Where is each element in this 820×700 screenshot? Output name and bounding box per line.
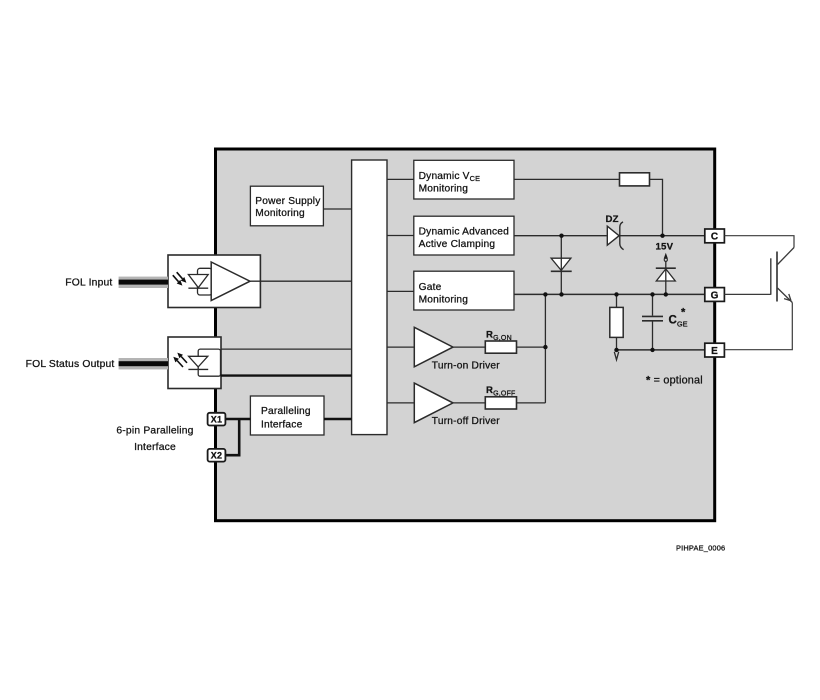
zener diode DZ [606,214,624,250]
wire FOL status lower to logic block [221,374,352,376]
wire paralleling interface to logic block [324,418,352,421]
block Dynamic Advanced Active Clamping [414,216,514,255]
wire C terminal to IGBT collector [724,236,794,248]
transistor Q1 IGBT [771,248,794,303]
svg-text:Power Supply: Power Supply [255,196,321,207]
label FOL Input [65,277,112,288]
svg-text:Active Clamping: Active Clamping [419,239,496,250]
wire clamping block to DZ [514,235,607,237]
svg-text:*: * [681,306,686,318]
block Dynamic VCE Monitoring [414,160,514,199]
pin X2 [208,449,226,462]
svg-text:FOL Status Output: FOL Status Output [26,359,115,370]
terminal E [705,343,725,357]
terminal G [705,288,725,302]
label PIHPAE_0006 [676,544,725,553]
svg-text:Paralleling: Paralleling [261,406,311,417]
wire sense resistor to C node [650,179,663,235]
svg-text:Monitoring: Monitoring [255,208,305,219]
svg-text:Monitoring: Monitoring [419,184,469,195]
emitter reference arrow [614,352,618,360]
wire logic block to turn-off driver [387,402,414,404]
wire RG_ON to gate node [517,346,546,348]
svg-text:X2: X2 [211,451,222,461]
wire logic block to Dynamic Advanced Active Clamping [387,235,414,237]
pin X1 [208,413,226,426]
svg-text:Interface: Interface [261,419,303,430]
optocoupler FOL input receiver [168,255,260,308]
wire emitter rail [617,349,705,351]
svg-text:Monitoring: Monitoring [419,295,469,306]
wire FOL status upper to logic block [221,348,352,350]
block Paralleling Interface [250,396,324,435]
fiber optic cable FOL status [119,358,168,369]
node junction dots [543,234,668,353]
svg-text:* = optional: * = optional [646,375,703,387]
label optional note [646,375,703,387]
wire G terminal to IGBT gate [724,293,770,295]
block Power Supply Monitoring [250,186,323,226]
wire FOL input to logic block [250,280,352,282]
wire logic block to turn-on driver [387,346,414,348]
terminal C [705,229,725,243]
op-amp turn-on driver [414,327,500,371]
svg-text:Turn-on Driver: Turn-on Driver [432,360,500,371]
svg-text:X1: X1 [211,415,222,425]
wire gate monitoring to G terminal [514,293,705,295]
resistor collector sense [620,173,650,186]
wire logic block to Dynamic VCE Monitoring [387,178,414,180]
resistor gate-emitter [610,294,623,350]
svg-text:C: C [711,232,718,243]
fiber optic cable FOL input [119,277,168,288]
wire turn-on driver to RG_ON [453,346,485,348]
svg-text:Dynamic Advanced: Dynamic Advanced [419,227,510,238]
block Gate Monitoring [414,271,514,310]
capacitor CGE [642,294,688,350]
svg-text:15V: 15V [656,242,674,253]
op-amp turn-off driver [414,383,500,427]
svg-text:Turn-off Driver: Turn-off Driver [432,416,501,427]
resistor RG_ON [485,329,516,353]
svg-text:6-pin Paralleling: 6-pin Paralleling [116,425,193,436]
label 6-pin Paralleling Interface [116,425,193,453]
svg-text:Interface: Interface [134,442,176,453]
svg-text:E: E [711,346,718,357]
wire X1 to paralleling interface [225,418,250,421]
svg-text:PIHPAE_0006: PIHPAE_0006 [676,544,725,553]
svg-text:DZ: DZ [606,214,619,225]
wire VCE monitoring to sense resistor [514,178,620,180]
resistor RG_OFF [485,385,516,409]
wire X2 branch [225,419,239,455]
IC gate-driver body U1 [216,149,715,521]
zener diode 15V [656,242,676,295]
svg-text:G: G [711,290,719,301]
wire RG_OFF to driver bus [517,402,546,404]
wire IGBT emitter to E terminal [724,303,792,350]
svg-text:Gate: Gate [419,282,442,293]
label FOL Status Output [26,359,115,370]
diode D1 clamp [551,236,572,295]
optocoupler FOL status transmitter [168,337,221,389]
wire turn-off driver to RG_OFF [453,402,485,404]
central logic block [352,160,387,435]
svg-text:FOL Input: FOL Input [65,277,112,288]
wire logic block to Gate Monitoring [387,290,414,292]
wire PSM to logic block [323,208,351,210]
wire driver bus vertical [544,294,546,403]
wire DZ to C terminal [619,235,705,237]
